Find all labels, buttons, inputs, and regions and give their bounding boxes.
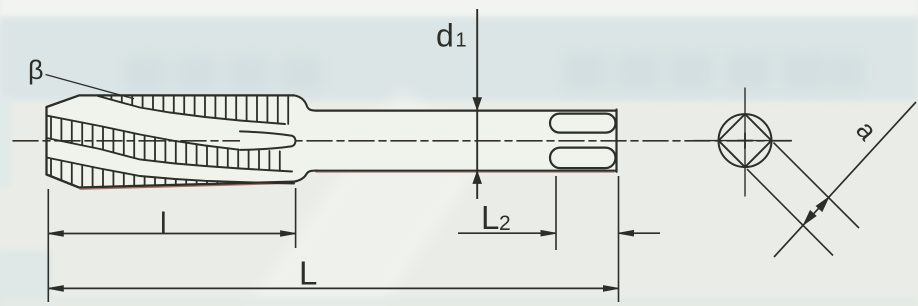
L2 dimension line left part bbox=[458, 232, 556, 234]
svg-text:β: β bbox=[28, 55, 44, 85]
left margin bluish sliver bbox=[0, 96, 11, 188]
vertical centerline of end view bbox=[744, 88, 746, 197]
a dimension line bbox=[774, 102, 916, 257]
top whitish strip bbox=[0, 0, 918, 17]
d1 dimension line (vertical through shank) bbox=[476, 9, 478, 199]
L arrow right bbox=[604, 286, 619, 291]
pale diagonal scan streak bbox=[210, 89, 489, 306]
svg-text:d: d bbox=[436, 18, 454, 54]
main centerline (dash-dot axis) bbox=[13, 140, 791, 142]
a extension line 2 (from bottom vertex) bbox=[747, 169, 833, 255]
beta leader line bbox=[46, 75, 135, 99]
thread hatch band T1 (under top edge) bbox=[111, 96, 288, 124]
L2 arrow (points right) bbox=[541, 231, 556, 236]
svg-text:L: L bbox=[299, 255, 317, 292]
L arrow left bbox=[48, 286, 63, 291]
flute edge line C bbox=[47, 138, 293, 172]
L2 extension line left bbox=[555, 176, 557, 250]
flute runout bullet (web core) bbox=[240, 131, 295, 150]
flute edge line A bbox=[98, 96, 285, 124]
a arrow upper (points up-right) bbox=[816, 197, 828, 211]
L2/L extension line right (shank end) bbox=[618, 176, 620, 302]
svg-text:1: 1 bbox=[456, 30, 467, 52]
neck fillet bottom bbox=[294, 171, 317, 182]
l extension line left (also for L) bbox=[47, 189, 49, 302]
shank end face bbox=[615, 110, 617, 172]
flute edge line B bbox=[47, 116, 239, 150]
d1 arrow up bbox=[473, 172, 481, 184]
tap body outline (threaded portion with chamfered tip) bbox=[47, 95, 295, 187]
a dimension bbox=[747, 102, 916, 257]
bottom strip tint bbox=[0, 297, 918, 306]
L2 arrow (points left) bbox=[619, 231, 634, 236]
square drive flat (bottom, rounded-end slot) bbox=[550, 148, 616, 169]
l dimension line bbox=[48, 233, 295, 235]
thread hatch band T2 (central band) bbox=[51, 117, 280, 171]
bottom-left bluish patch bbox=[0, 250, 52, 306]
svg-text:L: L bbox=[481, 199, 499, 236]
l arrow left bbox=[48, 231, 63, 236]
svg-text:2: 2 bbox=[499, 212, 511, 235]
shank bottom edge bbox=[316, 170, 617, 172]
a extension line 1 (from right vertex) bbox=[774, 143, 860, 228]
horizontal centerline of end view bbox=[693, 140, 792, 142]
L2 dimension line right part bbox=[619, 232, 661, 234]
tap interior light fill bbox=[47, 95, 617, 187]
flute edge line D bbox=[47, 158, 295, 184]
red scan fringe under shank bottom edge bbox=[316, 171, 614, 173]
faint ghost characters left cluster bbox=[125, 56, 322, 90]
L dimension line bbox=[48, 287, 618, 289]
pale blue scan band across top bbox=[0, 17, 918, 101]
faint ghost characters right cluster bbox=[563, 52, 864, 90]
neck fillet top (thread to shank transition) bbox=[294, 95, 317, 110]
l extension line right bbox=[295, 188, 297, 248]
square drive flat (top, rounded-end slot) bbox=[550, 114, 616, 133]
inscribed square (rotated 45) bbox=[719, 114, 772, 167]
d1 arrow down bbox=[473, 98, 481, 110]
red scan fringe under thread bottom edge bbox=[80, 183, 293, 189]
l arrow right bbox=[281, 231, 296, 236]
center cross mark bbox=[737, 133, 753, 149]
a arrow lower (points down-left) bbox=[804, 211, 816, 225]
shank top edge bbox=[316, 109, 617, 111]
svg-text:l: l bbox=[160, 207, 167, 240]
thread hatch band T3 (lower band) bbox=[51, 158, 217, 186]
end view circle bbox=[719, 114, 772, 167]
